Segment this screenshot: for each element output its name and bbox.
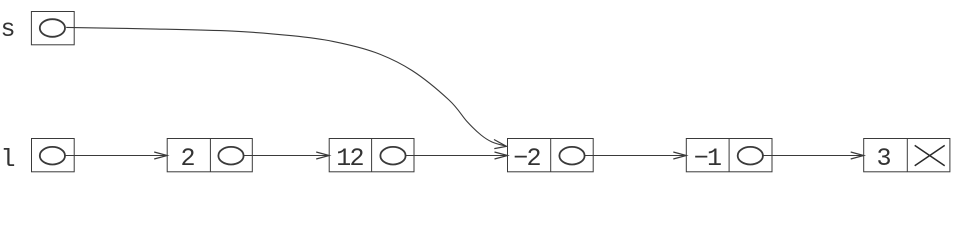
svg-text:3: 3 [876, 144, 891, 173]
pointer blob (ellipse) in box s [40, 19, 65, 37]
svg-text:s: s [0, 15, 15, 44]
node 12: cell divider [371, 139, 373, 172]
node 2: pointer blob (ellipse) [218, 147, 243, 165]
node 2: box [167, 139, 252, 172]
wire: arrow shaft from node 2 to node 12 [244, 155, 329, 157]
svg-text:2: 2 [180, 144, 195, 173]
node -1: pointer blob (ellipse) [738, 147, 763, 165]
svg-text:12: 12 [336, 144, 363, 173]
node -1: box [686, 139, 772, 172]
node 2: cell divider [209, 139, 211, 172]
node -2: cell divider [550, 139, 552, 172]
node 3: box [864, 139, 950, 172]
node 3: null pointer cross [915, 145, 945, 165]
arrowhead at node -2 [495, 152, 508, 159]
pointer blob (ellipse) in box l [40, 147, 65, 165]
wire: arrow shaft from node -2 to node -1 [585, 155, 687, 157]
wire: arrow shaft from l to node 2 [65, 155, 167, 157]
svg-text:l: l [0, 145, 15, 174]
wire: arrow shaft from node -1 to node 3 [763, 155, 864, 157]
pointer box s [31, 12, 74, 45]
pointer box l [32, 139, 75, 172]
svg-text:−1: −1 [694, 144, 721, 173]
wire: arrow shaft from node 12 to node -2 [406, 155, 508, 157]
node 12: box [329, 139, 414, 172]
node -2: pointer blob (ellipse) [559, 147, 584, 165]
arrowhead of curved arrow at node -2 [494, 140, 507, 149]
node -1: cell divider [728, 139, 730, 172]
node 3: cell divider [906, 139, 908, 172]
svg-text:−2: −2 [513, 144, 540, 173]
arrowhead at node 3 [851, 152, 864, 159]
arrowhead at node 2 [154, 152, 167, 159]
node -2: box [508, 139, 594, 172]
node 12: pointer blob (ellipse) [380, 147, 405, 165]
wire: curved arrow from s to node -2 [66, 27, 506, 146]
arrowhead at node 12 [316, 152, 329, 159]
arrowhead at node -1 [673, 152, 686, 159]
